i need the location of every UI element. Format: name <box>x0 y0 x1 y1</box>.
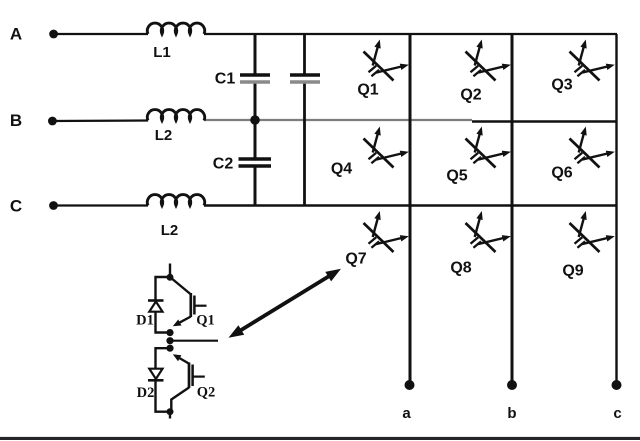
svg-text:C2: C2 <box>213 156 234 173</box>
svg-text:Q6: Q6 <box>551 165 572 182</box>
svg-text:Q1: Q1 <box>357 82 378 99</box>
svg-text:Q9: Q9 <box>562 263 583 280</box>
svg-text:Q2: Q2 <box>460 87 481 104</box>
svg-text:Q8: Q8 <box>450 260 471 277</box>
svg-text:c: c <box>613 405 621 422</box>
svg-text:L1: L1 <box>153 44 171 61</box>
svg-text:Q4: Q4 <box>331 161 352 178</box>
svg-text:D1: D1 <box>136 313 154 329</box>
svg-text:B: B <box>10 111 22 130</box>
svg-text:D2: D2 <box>137 385 155 401</box>
svg-text:L2: L2 <box>155 127 173 144</box>
svg-text:Q2: Q2 <box>197 385 216 401</box>
svg-text:C: C <box>10 197 22 216</box>
svg-text:C1: C1 <box>215 71 236 88</box>
svg-text:Q3: Q3 <box>551 77 572 94</box>
svg-text:Q1: Q1 <box>196 313 215 329</box>
svg-text:L2: L2 <box>161 222 179 239</box>
svg-text:a: a <box>402 405 411 422</box>
svg-text:Q5: Q5 <box>446 168 467 185</box>
svg-text:b: b <box>507 405 516 422</box>
svg-text:Q7: Q7 <box>345 251 366 268</box>
svg-text:A: A <box>10 25 22 44</box>
